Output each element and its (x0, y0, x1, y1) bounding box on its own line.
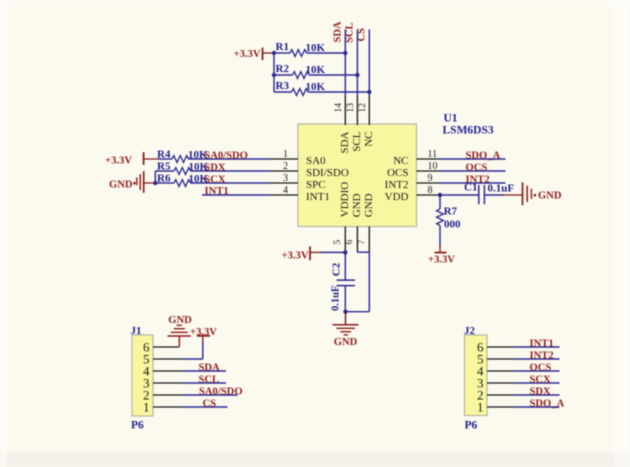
svg-text:GND: GND (109, 179, 133, 190)
resistor R2 10K (274, 63, 357, 79)
designator U1 (444, 112, 458, 124)
svg-text:NC: NC (393, 155, 408, 167)
svg-text:SCL: SCL (199, 374, 220, 385)
net label SCX (J2) (530, 374, 552, 385)
svg-text:LSM6DS3: LSM6DS3 (443, 125, 494, 137)
svg-text:INT2: INT2 (530, 350, 554, 361)
ground GND (below C2) (333, 312, 359, 349)
power +3.3V (J1 pin5) (190, 327, 217, 342)
svg-text:R3: R3 (276, 80, 290, 92)
designator J1 (131, 325, 142, 337)
svg-text:10K: 10K (306, 81, 326, 93)
svg-text:R7: R7 (444, 205, 458, 217)
wire pins 6-7 join (345, 252, 369, 312)
net label SDA (top) (332, 21, 343, 42)
designator J2 (464, 325, 476, 337)
pin 10 OCS (387, 161, 440, 179)
svg-text:7: 7 (357, 240, 367, 245)
net label SCL (J1) (199, 374, 220, 385)
pin 8 VDD (385, 185, 440, 203)
wire pin8 VDD to C1 (440, 194, 479, 196)
svg-text:GND: GND (168, 315, 192, 326)
svg-text:10K: 10K (306, 64, 326, 76)
net label SCX (204, 174, 226, 185)
net label SDX (204, 162, 226, 173)
net label OCS (J2) (530, 362, 552, 373)
net label SDO_A (J2) (530, 398, 565, 409)
svg-text:11: 11 (428, 149, 438, 160)
ground GND (J1 pin6, inverted) (168, 315, 193, 347)
pin 3 SPC (270, 173, 326, 191)
svg-text:3: 3 (283, 173, 288, 184)
value LSM6DS3 (443, 125, 494, 137)
junction GND node (343, 310, 347, 314)
ground GND (left) (109, 171, 144, 193)
pin 5 (J1) to +3.3V (143, 341, 203, 367)
svg-text:SA0/SDO: SA0/SDO (199, 386, 243, 397)
net label CS (J1) (203, 398, 217, 409)
net label SDA (J1) (199, 362, 221, 373)
connector J1 body (132, 335, 153, 416)
pin 5 (J2) INT2 (477, 352, 560, 367)
resistor R5 10K (157, 160, 270, 174)
svg-text:SDO_A: SDO_A (530, 398, 565, 409)
svg-text:+3.3V: +3.3V (234, 49, 261, 60)
pin 1 (J1) CS (143, 400, 228, 415)
svg-text:INT1: INT1 (530, 338, 554, 349)
net label SDX (J2) (530, 386, 552, 397)
svg-text:+3.3V: +3.3V (190, 327, 217, 338)
svg-text:SDA: SDA (339, 131, 351, 153)
wire +3.3V to pin5 node (310, 251, 345, 253)
svg-text:CS: CS (203, 398, 217, 409)
capacitor C1 0.1uF (464, 182, 514, 205)
svg-text:10K: 10K (306, 42, 326, 54)
ground GND (right of C1) (523, 182, 562, 205)
wire pin9 INT2 (440, 182, 506, 184)
resistor R7 000 (437, 195, 461, 247)
pin 13 SCL (346, 96, 363, 152)
wire SDA vertical (344, 30, 346, 96)
svg-text:SDX: SDX (204, 162, 226, 173)
svg-text:+3.3V: +3.3V (428, 255, 455, 266)
svg-text:6: 6 (345, 240, 355, 245)
pin 2 (J1) SA0/SDO (143, 388, 238, 403)
pin 7 GND (357, 193, 375, 252)
pin 4 INT1 (270, 185, 330, 203)
svg-text:VDD: VDD (385, 191, 409, 203)
svg-text:R6: R6 (157, 172, 171, 184)
svg-text:0.1uF: 0.1uF (488, 183, 515, 195)
pin 3 (J1) SCL (143, 376, 226, 391)
svg-text:5: 5 (333, 240, 343, 245)
svg-text:R5: R5 (157, 160, 171, 172)
svg-text:OCS: OCS (466, 162, 488, 173)
wire +3.3V to R4 (144, 158, 172, 160)
svg-text:R4: R4 (157, 148, 171, 160)
svg-text:GND: GND (334, 337, 358, 348)
wire pin10 OCS (440, 170, 506, 172)
op IC U1 LSM6DS3 body (298, 124, 417, 227)
net label SCL (top) (344, 22, 355, 42)
net label INT2 (J2) (530, 350, 554, 361)
junction VDDIO node (343, 250, 347, 254)
svg-text:VDDIO: VDDIO (339, 182, 351, 217)
svg-text:NC: NC (363, 132, 375, 147)
pin 1 SA0 (270, 149, 326, 167)
wire C2 to GND node (344, 286, 346, 312)
pin 6 GND (345, 193, 363, 252)
net label INT1 (J2) (530, 338, 554, 349)
svg-text:GND: GND (351, 193, 363, 217)
wire VDDIO down to C2 (344, 252, 346, 280)
wire SCL vertical (356, 30, 358, 96)
pin 12 NC (358, 96, 375, 147)
resistor R1 10K (274, 41, 345, 57)
svg-text:SPC: SPC (306, 179, 326, 191)
svg-text:INT2: INT2 (385, 179, 409, 191)
svg-text:SDX: SDX (530, 386, 552, 397)
value P6 (J2) (465, 420, 478, 432)
wire CS vertical (368, 30, 370, 96)
pin 4 (J1) SDA (143, 364, 226, 379)
net label SA0/SDO (J1) (199, 386, 243, 397)
svg-text:+3.3V: +3.3V (105, 155, 132, 166)
svg-text:SDA: SDA (199, 362, 221, 373)
svg-text:13: 13 (346, 103, 356, 113)
svg-text:SDA: SDA (332, 21, 343, 42)
svg-text:9: 9 (428, 173, 433, 184)
wire INT1 to pin4 (202, 194, 270, 196)
net label SA0/SDO (left) (204, 150, 248, 161)
svg-text:10: 10 (428, 161, 438, 172)
resistor R3 10K (274, 80, 369, 96)
svg-text:14: 14 (334, 103, 344, 113)
svg-text:8: 8 (428, 185, 433, 196)
svg-text:1: 1 (143, 400, 150, 415)
net label INT1 (left) (205, 186, 229, 197)
wire feed vertical R1-R3 (273, 53, 275, 92)
net label SDO_A (466, 150, 501, 161)
pin 1 (J2) SDO_A (477, 400, 560, 415)
svg-text:1: 1 (283, 149, 288, 160)
junction R1-SDA (343, 51, 347, 55)
svg-text:P6: P6 (131, 419, 144, 431)
wire R5 feed vertical (155, 171, 174, 183)
svg-text:P6: P6 (465, 420, 478, 432)
capacitor C2 0.1uF (330, 262, 355, 311)
svg-text:SDO_A: SDO_A (466, 150, 501, 161)
power +3.3V (below R7) (428, 246, 455, 266)
svg-text:4: 4 (283, 185, 288, 196)
svg-text:R2: R2 (276, 63, 290, 75)
svg-text:R1: R1 (276, 41, 289, 53)
svg-text:0.1uF: 0.1uF (330, 286, 341, 311)
pin 3 (J2) SCX (477, 376, 560, 391)
svg-text:U1: U1 (444, 112, 458, 124)
junction R2-SCL (355, 73, 359, 77)
pin 11 NC (393, 149, 440, 167)
svg-text:C1: C1 (464, 182, 477, 194)
svg-text:12: 12 (358, 103, 368, 113)
svg-text:C2: C2 (330, 262, 342, 276)
svg-text:OCS: OCS (530, 362, 552, 373)
resistor R6 10K (157, 172, 270, 186)
svg-text:+3.3V: +3.3V (282, 250, 309, 261)
pin 5 VDDIO (333, 182, 351, 253)
svg-text:SCL: SCL (351, 131, 363, 151)
svg-text:SCX: SCX (204, 174, 226, 185)
wire GND to R6 (144, 182, 174, 184)
power +3.3V (top pull-ups) (234, 48, 263, 61)
net label OCS (right) (466, 162, 488, 173)
svg-text:000: 000 (444, 219, 461, 231)
junction pin8-R7 (438, 193, 442, 197)
wire C1 to GND (484, 194, 522, 196)
junction R3-CS (367, 90, 371, 94)
pin 2 (J2) SDX (477, 388, 560, 403)
pin 6 (J1) to GND (143, 340, 179, 355)
pin 4 (J2) OCS (477, 364, 560, 379)
svg-text:J2: J2 (464, 325, 476, 337)
svg-text:SCL: SCL (344, 22, 355, 42)
svg-text:J1: J1 (131, 325, 142, 337)
power +3.3V (left) (105, 152, 144, 166)
junction feed-R2 (272, 73, 276, 77)
pin 6 (J2) INT1 (477, 340, 560, 355)
connector J2 body (465, 335, 488, 416)
pin 2 SDI/SDO (270, 161, 349, 179)
wire pin11 SDO_A (440, 158, 506, 160)
svg-text:SDI/SDO: SDI/SDO (306, 167, 349, 179)
wire +3.3V to R1 (263, 52, 277, 54)
svg-text:INT1: INT1 (205, 186, 229, 197)
net label INT2 (right) (466, 174, 490, 185)
svg-text:OCS: OCS (387, 167, 408, 179)
svg-text:INT1: INT1 (306, 191, 330, 203)
power +3.3V (VDDIO) (282, 246, 310, 261)
junction feed-R1 (272, 51, 276, 55)
pin 14 SDA (334, 96, 351, 154)
junction R5 feed (153, 181, 157, 185)
value P6 (J1) (131, 419, 144, 431)
resistor R4 10K (157, 148, 270, 162)
net label CS (top) (356, 28, 367, 42)
pin 9 INT2 (385, 173, 440, 191)
svg-text:GND: GND (538, 190, 562, 201)
svg-text:SCX: SCX (530, 374, 552, 385)
svg-text:SA0: SA0 (306, 155, 326, 167)
svg-text:2: 2 (283, 161, 288, 172)
svg-text:GND: GND (363, 193, 375, 217)
svg-text:1: 1 (477, 400, 484, 415)
svg-text:SA0/SDO: SA0/SDO (204, 150, 248, 161)
